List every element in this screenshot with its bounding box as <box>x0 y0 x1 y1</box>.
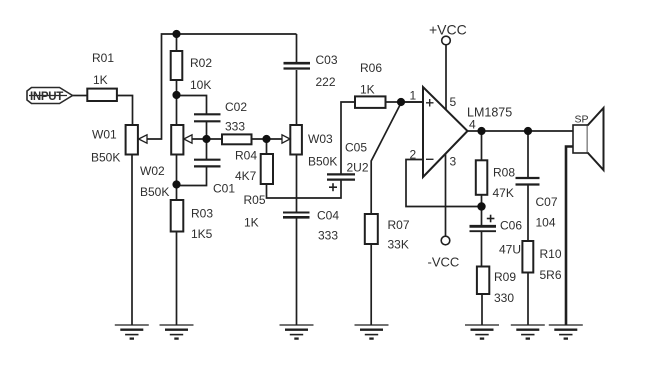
svg-text:C06: C06 <box>500 219 522 233</box>
svg-text:1K5: 1K5 <box>191 227 213 241</box>
svg-text:104: 104 <box>536 216 556 230</box>
svg-text:R05: R05 <box>244 193 266 207</box>
svg-text:47U: 47U <box>499 243 521 257</box>
svg-text:C01: C01 <box>213 182 235 196</box>
svg-text:LM1875: LM1875 <box>467 106 512 120</box>
svg-text:R02: R02 <box>190 56 212 70</box>
svg-text:1: 1 <box>410 89 417 103</box>
svg-text:R07: R07 <box>388 218 410 232</box>
svg-text:R06: R06 <box>360 61 382 75</box>
svg-text:3: 3 <box>450 155 457 169</box>
svg-text:2: 2 <box>410 148 417 162</box>
svg-text:333: 333 <box>225 120 245 134</box>
svg-text:R10: R10 <box>540 247 562 261</box>
svg-text:INPUT: INPUT <box>30 91 63 103</box>
svg-text:R01: R01 <box>92 51 114 65</box>
svg-text:+VCC: +VCC <box>429 22 467 38</box>
svg-text:W01: W01 <box>92 128 117 142</box>
svg-text:B50K: B50K <box>91 151 120 165</box>
svg-text:330: 330 <box>494 291 514 305</box>
svg-text:47K: 47K <box>493 186 514 200</box>
svg-text:4: 4 <box>469 118 476 132</box>
svg-text:5R6: 5R6 <box>540 268 562 282</box>
svg-text:222: 222 <box>316 75 336 89</box>
svg-text:333: 333 <box>318 229 338 243</box>
svg-text:4K7: 4K7 <box>235 169 257 183</box>
svg-text:1K: 1K <box>244 216 259 230</box>
svg-text:C04: C04 <box>317 209 339 223</box>
svg-text:5: 5 <box>450 95 457 109</box>
svg-text:R09: R09 <box>494 270 516 284</box>
svg-text:SP: SP <box>575 114 589 126</box>
svg-text:R03: R03 <box>191 207 213 221</box>
svg-text:2U2: 2U2 <box>347 161 369 175</box>
svg-text:R08: R08 <box>493 166 515 180</box>
svg-text:33K: 33K <box>388 238 409 252</box>
svg-text:W02: W02 <box>140 164 165 178</box>
svg-text:B50K: B50K <box>140 185 169 199</box>
svg-text:1K: 1K <box>360 83 375 97</box>
svg-text:C07: C07 <box>536 195 558 209</box>
svg-text:C05: C05 <box>345 141 367 155</box>
svg-text:R04: R04 <box>235 149 257 163</box>
svg-text:1K: 1K <box>93 73 108 87</box>
svg-text:10K: 10K <box>190 78 211 92</box>
svg-text:-VCC: -VCC <box>428 255 460 270</box>
svg-text:C02: C02 <box>225 100 247 114</box>
svg-text:C03: C03 <box>316 53 338 67</box>
svg-text:B50K: B50K <box>308 155 337 169</box>
svg-text:W03: W03 <box>308 132 333 146</box>
